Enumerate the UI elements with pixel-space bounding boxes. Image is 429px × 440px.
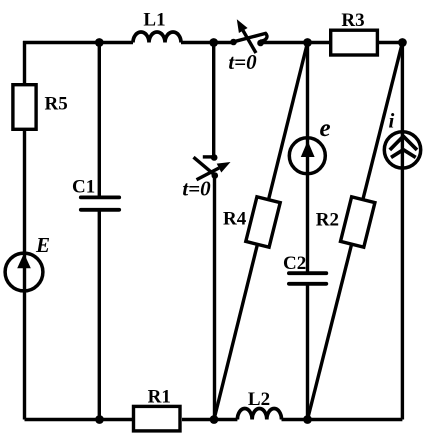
node I junction dot (R4 bottom / L2 left)	[210, 415, 219, 424]
resistor R5	[13, 85, 36, 130]
wire i branch (right side)	[401, 43, 404, 420]
svg-text:R2: R2	[316, 209, 339, 230]
wire e branch upper	[306, 43, 309, 274]
switch S2 blade	[194, 157, 217, 176]
svg-text:R5: R5	[45, 94, 68, 115]
source i circle	[384, 132, 420, 168]
switch S1 actuation arrow	[237, 19, 256, 53]
wire switch to node D	[261, 41, 330, 44]
source e arrowhead	[301, 141, 315, 157]
svg-text:L2: L2	[248, 389, 270, 410]
svg-text:E: E	[35, 233, 50, 257]
switch S1 right contact dot	[257, 40, 264, 47]
node H junction dot (C1 branch bottom)	[95, 415, 104, 424]
switch S1 blade with hook	[234, 33, 268, 41]
wire R1 to node I	[182, 418, 237, 421]
wire L1 to switch node	[181, 41, 234, 44]
inductor L2	[237, 408, 281, 419]
capacitor C2	[289, 273, 326, 284]
svg-text:R3: R3	[341, 10, 364, 31]
wire C1 branch lower	[98, 210, 101, 420]
switch S2 lower contact dot	[212, 172, 219, 179]
node J junction dot (R2 bottom / e branch bottom)	[303, 415, 312, 424]
wire switch branch lower	[213, 176, 216, 420]
resistor R3	[331, 30, 378, 55]
source E circle	[5, 253, 43, 291]
resistor R1	[134, 406, 181, 431]
wire C1 branch upper	[98, 43, 101, 198]
svg-text:L1: L1	[143, 10, 165, 31]
wire bottom-left segment	[25, 418, 133, 421]
svg-text:C2: C2	[283, 253, 306, 274]
source i chevrons	[390, 136, 417, 157]
wire e branch lower	[306, 284, 309, 420]
svg-text:C1: C1	[72, 177, 95, 198]
node C junction dot (switch branch top)	[209, 38, 218, 47]
node F junction dot (top-right)	[398, 38, 407, 47]
node D junction dot (R3 left / e branch / R4 top)	[303, 38, 312, 47]
node B junction dot (C1 branch top)	[95, 38, 104, 47]
svg-text:R4: R4	[223, 209, 247, 230]
switch S2 upper contact dot	[211, 154, 218, 161]
svg-text:t=0: t=0	[182, 177, 211, 201]
R2 diagonal wire	[308, 43, 403, 420]
source E arrowhead	[17, 253, 31, 268]
capacitor C1	[81, 197, 119, 209]
wire top-left segment	[23, 41, 133, 44]
R4 diagonal wire	[214, 43, 308, 420]
svg-text:e: e	[320, 115, 331, 142]
svg-text:R1: R1	[148, 387, 171, 408]
wire left branch top (A to R5)	[23, 41, 26, 83]
resistor R2	[340, 197, 374, 247]
source e circle	[289, 138, 325, 174]
resistor R4	[246, 197, 280, 247]
wire L2 to node J	[282, 418, 403, 421]
wire R3 to node F	[379, 41, 402, 44]
switch S2 hook tick	[203, 155, 214, 158]
switch S1 left contact dot	[230, 39, 237, 46]
wire R5 to bottom-left corner	[23, 131, 26, 420]
svg-text:i: i	[389, 109, 395, 133]
switch S2 actuation arrow	[197, 162, 231, 180]
inductor L1	[133, 32, 181, 42]
svg-text:t=0: t=0	[228, 50, 257, 74]
wire switch branch upper	[212, 43, 215, 158]
